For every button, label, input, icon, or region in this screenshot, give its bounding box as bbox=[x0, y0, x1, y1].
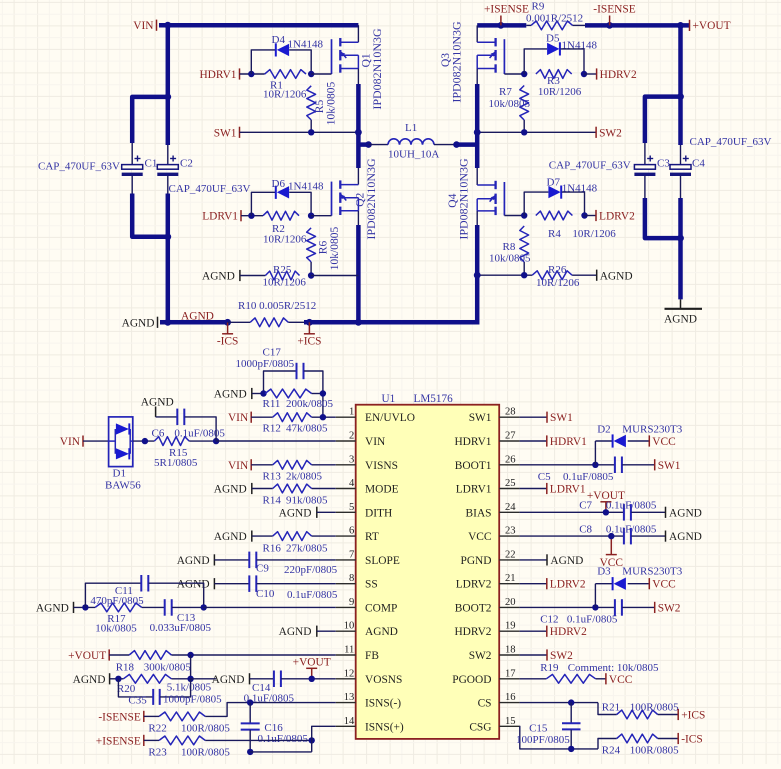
svg-text:BAW56: BAW56 bbox=[105, 480, 141, 492]
node BIAS/+VOUT bbox=[603, 509, 609, 515]
net label -ICS bbox=[227, 322, 229, 334]
svg-text:C10: C10 bbox=[256, 588, 275, 600]
svg-text:R11: R11 bbox=[263, 398, 281, 410]
svg-text:R6: R6 bbox=[318, 241, 330, 255]
wire node to HDRV2 bbox=[584, 73, 597, 75]
svg-text:AGND: AGND bbox=[669, 507, 702, 519]
node gate/R3/D5 bbox=[521, 71, 527, 77]
svg-text:SW2: SW2 bbox=[469, 650, 492, 662]
svg-text:U1: U1 bbox=[382, 393, 396, 405]
svg-text:R14: R14 bbox=[263, 495, 282, 507]
node VCC tap bbox=[608, 533, 614, 539]
node D1/R15/C6... left bbox=[142, 438, 148, 444]
wire LDRV1 to R2 bbox=[241, 215, 263, 217]
wire CSG corner bbox=[520, 726, 598, 749]
node R2/R6/gate bbox=[308, 213, 314, 219]
wire R10 right lead bbox=[288, 321, 304, 323]
svg-text:R18: R18 bbox=[116, 662, 135, 674]
resistor R6 bbox=[307, 228, 316, 262]
resistor R9 bbox=[531, 21, 573, 30]
node -ICS tap bbox=[224, 319, 231, 326]
svg-text:17: 17 bbox=[505, 668, 516, 679]
svg-text:LDRV2: LDRV2 bbox=[550, 579, 586, 591]
wire HDRV1 to R1 bbox=[240, 73, 265, 75]
capacitor C10 bbox=[214, 583, 249, 585]
svg-text:R8: R8 bbox=[503, 241, 516, 253]
wire SW2 bbox=[477, 131, 596, 133]
svg-text:100R/0805: 100R/0805 bbox=[630, 702, 679, 714]
svg-text:Comment: 10k/0805: Comment: 10k/0805 bbox=[568, 662, 659, 674]
wire R18 to pin11 bbox=[171, 654, 335, 656]
resistor R18 bbox=[129, 651, 171, 660]
svg-text:+VOUT: +VOUT bbox=[293, 656, 331, 668]
wire L1 left stub bbox=[358, 142, 368, 147]
svg-text:PGOOD: PGOOD bbox=[452, 674, 491, 686]
net label +VOUT at BIAS bbox=[605, 502, 607, 513]
svg-text:5: 5 bbox=[349, 502, 354, 513]
svg-text:-ISENSE: -ISENSE bbox=[593, 4, 635, 16]
net label VCC at R19 bbox=[596, 678, 606, 680]
wire VIN rail bbox=[159, 23, 358, 28]
net label HDRV2 bbox=[596, 68, 598, 79]
svg-text:R26: R26 bbox=[548, 264, 567, 276]
svg-text:D4: D4 bbox=[272, 34, 286, 46]
svg-text:25: 25 bbox=[505, 478, 516, 489]
diode D5 bbox=[547, 43, 559, 55]
svg-text:IPD082N10N3G: IPD082N10N3G bbox=[449, 21, 463, 103]
op-amp U1 body bbox=[356, 405, 500, 739]
svg-text:27k/0805: 27k/0805 bbox=[286, 543, 328, 555]
node LDRV1/D6 bbox=[248, 213, 254, 219]
svg-text:VCC: VCC bbox=[652, 579, 675, 591]
svg-text:11: 11 bbox=[344, 645, 354, 656]
wire BOOT2 up to D3 bbox=[594, 584, 596, 608]
svg-text:D2: D2 bbox=[597, 424, 610, 436]
node C3-C4 gnd join bbox=[677, 235, 684, 242]
svg-text:5.1k/0805: 5.1k/0805 bbox=[167, 682, 212, 694]
svg-text:5R1/0805: 5R1/0805 bbox=[154, 457, 198, 469]
svg-text:C35: C35 bbox=[128, 695, 147, 707]
wire C1 bottom lead bbox=[131, 176, 133, 194]
svg-text:27: 27 bbox=[505, 431, 516, 442]
svg-text:AGND: AGND bbox=[664, 314, 697, 326]
wire VIN to D1 bbox=[83, 440, 109, 442]
wire D6 left leg bbox=[251, 192, 275, 215]
svg-text:AGND: AGND bbox=[669, 531, 702, 543]
capacitor C4 bbox=[670, 165, 691, 170]
svg-text:10R/1206: 10R/1206 bbox=[536, 277, 580, 289]
svg-text:100R/0805: 100R/0805 bbox=[181, 723, 230, 735]
svg-text:SLOPE: SLOPE bbox=[365, 555, 400, 567]
node CS/C15 bbox=[568, 699, 574, 705]
svg-text:HDRV1: HDRV1 bbox=[454, 436, 491, 448]
wire R6 bottom lead bbox=[310, 262, 312, 276]
op-amp U1 pins 1-28 bbox=[336, 416, 356, 418]
svg-text:10k/0805: 10k/0805 bbox=[326, 82, 338, 126]
resistor R7 bbox=[520, 86, 529, 121]
svg-text:0.1uF/0805: 0.1uF/0805 bbox=[174, 428, 225, 440]
resistor R12 bbox=[273, 413, 312, 422]
svg-text:FB: FB bbox=[365, 650, 379, 662]
svg-text:DITH: DITH bbox=[365, 507, 392, 519]
node +ICS tap bbox=[306, 319, 313, 326]
transistor Q1 bbox=[331, 39, 333, 74]
svg-text:C9: C9 bbox=[256, 563, 269, 575]
svg-text:D7: D7 bbox=[547, 177, 561, 189]
wire D5 left leg bbox=[524, 49, 547, 74]
wire D7 left leg bbox=[524, 192, 548, 215]
wire input gnd bus bbox=[166, 194, 171, 323]
resistor R4 bbox=[536, 211, 573, 220]
svg-text:2: 2 bbox=[349, 431, 354, 442]
capacitor C35 bbox=[118, 679, 152, 697]
capacitor C6 bbox=[156, 416, 177, 418]
svg-text:L1: L1 bbox=[405, 122, 417, 134]
wire -ISENSE to R22 bbox=[144, 715, 159, 717]
wire FB down bbox=[190, 655, 192, 679]
capacitor C5 bbox=[614, 457, 616, 474]
wire Q2 drain lead bbox=[357, 168, 359, 185]
svg-text:AGND: AGND bbox=[550, 555, 583, 567]
svg-text:1N4148: 1N4148 bbox=[288, 39, 324, 51]
wire C16 bottom to corner bbox=[250, 751, 312, 753]
svg-text:HDRV2: HDRV2 bbox=[454, 626, 491, 638]
diode D4 bbox=[275, 43, 277, 56]
svg-text:CAP_470UF_63V: CAP_470UF_63V bbox=[169, 183, 251, 195]
wire AGND bus left bbox=[160, 320, 228, 325]
svg-text:1N4148: 1N4148 bbox=[288, 181, 324, 193]
svg-text:C15: C15 bbox=[529, 723, 548, 735]
node +VOUT corner bbox=[677, 22, 684, 29]
svg-text:100R/0805: 100R/0805 bbox=[181, 747, 230, 759]
svg-text:AGND: AGND bbox=[36, 602, 69, 614]
wire R14 to pin4 bbox=[312, 488, 336, 490]
svg-text:12: 12 bbox=[344, 668, 355, 679]
node +VOUT/pin12 bbox=[309, 676, 315, 682]
svg-text:LDRV2: LDRV2 bbox=[599, 211, 635, 223]
wire R15 right bbox=[189, 440, 216, 442]
wire VCC row bbox=[520, 535, 624, 537]
svg-text:CAP_470UF_63V: CAP_470UF_63V bbox=[38, 161, 120, 173]
net label SW2 at C12 bbox=[654, 602, 656, 613]
svg-text:ISNS(+): ISNS(+) bbox=[365, 721, 404, 733]
svg-text:C8: C8 bbox=[579, 524, 592, 536]
wire comp to pin9 bbox=[204, 606, 336, 608]
svg-text:VISNS: VISNS bbox=[365, 460, 398, 472]
wire SW2 bus thick bbox=[475, 84, 480, 168]
svg-text:+ISENSE: +ISENSE bbox=[96, 735, 141, 747]
wire Q2 src thick to AGND bbox=[356, 225, 361, 322]
net label SW1 at C5 bbox=[654, 459, 656, 470]
svg-text:6: 6 bbox=[349, 526, 354, 537]
wire C1 top lead bbox=[131, 143, 133, 165]
svg-text:D1: D1 bbox=[113, 468, 126, 480]
resistor R11 bbox=[265, 389, 312, 398]
capacitor C13 bbox=[164, 599, 166, 616]
wire R25 left lead bbox=[240, 275, 266, 277]
capacitor C14 bbox=[250, 678, 274, 680]
svg-text:R13: R13 bbox=[263, 471, 282, 483]
svg-text:AGND: AGND bbox=[279, 507, 312, 519]
wire R10 left lead bbox=[228, 321, 251, 323]
diode D6 bbox=[275, 186, 277, 199]
wire node to Q2 gate bbox=[311, 215, 331, 217]
power port AGND at C8 bbox=[665, 531, 667, 542]
svg-text:D6: D6 bbox=[272, 178, 286, 190]
svg-text:22: 22 bbox=[505, 549, 516, 560]
wire AGND bus right bbox=[304, 320, 477, 325]
wire output bus down to C4 bbox=[678, 25, 683, 145]
svg-text:C2: C2 bbox=[180, 158, 193, 170]
wire AGND to R11 bbox=[252, 393, 265, 395]
svg-text:1: 1 bbox=[349, 407, 354, 418]
wire AGND to R20 bbox=[110, 678, 124, 680]
svg-text:HDRV1: HDRV1 bbox=[550, 436, 587, 448]
wire Q2 src thin bbox=[357, 211, 359, 225]
wire CS row bbox=[520, 702, 598, 704]
wire VIN to R13 bbox=[251, 464, 273, 466]
svg-text:91k/0805: 91k/0805 bbox=[286, 495, 328, 507]
svg-text:28: 28 bbox=[505, 407, 516, 418]
wire C2 top lead bbox=[167, 145, 169, 165]
svg-text:16: 16 bbox=[505, 692, 516, 703]
svg-text:LDRV1: LDRV1 bbox=[550, 484, 586, 496]
wire AGND to pin10 bbox=[317, 630, 336, 632]
node -ISENSE tap bbox=[606, 22, 613, 29]
svg-text:0.1uF/0805: 0.1uF/0805 bbox=[258, 733, 309, 745]
wire node to AGND2 pin12 bbox=[191, 678, 217, 680]
svg-text:10R/1206: 10R/1206 bbox=[263, 234, 307, 246]
svg-text:R4: R4 bbox=[548, 228, 561, 240]
svg-text:19: 19 bbox=[505, 621, 516, 632]
power port AGND at PGND bbox=[520, 559, 547, 561]
svg-text:VCC: VCC bbox=[468, 531, 491, 543]
node R25/R6 bbox=[308, 272, 314, 278]
svg-text:CAP_470UF_63V: CAP_470UF_63V bbox=[690, 136, 772, 148]
node CSG/C15 bbox=[568, 746, 574, 752]
svg-text:HDRV1: HDRV1 bbox=[199, 69, 236, 81]
svg-text:1000pF/0805: 1000pF/0805 bbox=[163, 694, 222, 706]
svg-text:MODE: MODE bbox=[365, 484, 399, 496]
svg-text:R25: R25 bbox=[273, 264, 292, 276]
wire input top corner to C1 bbox=[132, 97, 168, 143]
svg-text:+VOUT: +VOUT bbox=[693, 20, 731, 32]
svg-text:AGND: AGND bbox=[214, 389, 247, 401]
wire Q3 drain lead bbox=[476, 25, 478, 42]
svg-text:SW2: SW2 bbox=[658, 602, 681, 614]
wire C13 to node bbox=[172, 606, 204, 608]
svg-text:LDRV1: LDRV1 bbox=[202, 211, 238, 223]
svg-text:AGND: AGND bbox=[279, 626, 312, 638]
svg-text:C12: C12 bbox=[540, 614, 558, 626]
node CS filter top bbox=[247, 699, 253, 705]
node FB divider bbox=[187, 652, 193, 658]
svg-text:-ICS: -ICS bbox=[217, 335, 239, 347]
wire R26 row from bus bbox=[477, 274, 532, 276]
node C1-C2 gnd join bbox=[164, 233, 171, 240]
svg-text:R10 0.005R/2512: R10 0.005R/2512 bbox=[238, 300, 316, 312]
power port AGND at C7 bbox=[665, 507, 667, 518]
svg-text:R7: R7 bbox=[499, 86, 512, 98]
svg-text:C7: C7 bbox=[579, 500, 592, 512]
resistor R22 bbox=[159, 712, 205, 721]
svg-text:IPD082N10N3G: IPD082N10N3G bbox=[370, 28, 384, 110]
node R4/D7 right bbox=[581, 212, 587, 218]
svg-text:RT: RT bbox=[365, 531, 379, 543]
svg-text:R20: R20 bbox=[117, 683, 136, 695]
wire C2 bottom lead bbox=[167, 176, 169, 194]
wire R7 bottom lead bbox=[523, 120, 525, 132]
svg-text:18: 18 bbox=[505, 645, 516, 656]
svg-text:IPD082N10N3G: IPD082N10N3G bbox=[364, 158, 378, 240]
svg-text:IPD082N10N3G: IPD082N10N3G bbox=[456, 158, 470, 240]
svg-text:COMP: COMP bbox=[365, 602, 397, 614]
node output corner bbox=[677, 93, 684, 100]
net label SW1 pin28 bbox=[520, 416, 547, 418]
svg-text:10UH_10A: 10UH_10A bbox=[388, 149, 439, 161]
svg-text:10k/0805: 10k/0805 bbox=[489, 98, 531, 110]
svg-text:2k/0805: 2k/0805 bbox=[286, 471, 323, 483]
wire Q4 gate to node bbox=[504, 215, 524, 217]
svg-text:0.033uF/0805: 0.033uF/0805 bbox=[150, 622, 212, 634]
resistor R14 bbox=[273, 484, 312, 493]
wire BOOT2 bbox=[520, 606, 615, 608]
resistor R5 bbox=[307, 86, 316, 120]
svg-text:200k/0805: 200k/0805 bbox=[286, 398, 334, 410]
svg-text:C5: C5 bbox=[538, 471, 551, 483]
svg-text:R9: R9 bbox=[532, 1, 545, 13]
node R20/C35 left bbox=[115, 676, 121, 682]
wire AGND to pin5 bbox=[317, 511, 336, 513]
node SW1/R5 bbox=[308, 129, 314, 135]
svg-text:300k/0805: 300k/0805 bbox=[144, 662, 192, 674]
wire C3 bottom lead bbox=[644, 176, 646, 198]
wire Q3 src thin bbox=[476, 69, 478, 85]
svg-text:0.1uF/0805: 0.1uF/0805 bbox=[563, 471, 614, 483]
wire output gnd bus bbox=[678, 198, 683, 299]
svg-text:C17: C17 bbox=[263, 347, 282, 359]
resistor R20 bbox=[123, 674, 171, 683]
svg-text:CAP_470UF_63V: CAP_470UF_63V bbox=[549, 160, 631, 172]
resistor R13 bbox=[273, 460, 312, 469]
wire input bus down to C2 bbox=[166, 25, 171, 145]
svg-text:LDRV1: LDRV1 bbox=[456, 484, 492, 496]
svg-text:10k/0805: 10k/0805 bbox=[329, 227, 341, 271]
net label +ISENSE bbox=[500, 16, 502, 26]
wire output top corner to C3 bbox=[645, 97, 681, 143]
wire BOOT1 bbox=[520, 464, 615, 466]
wire D4 left leg bbox=[251, 50, 275, 74]
capacitor C7 bbox=[623, 504, 625, 520]
wire Q1 drain lead bbox=[357, 25, 359, 42]
net label +ICS right bbox=[658, 714, 679, 716]
wire AGND to comp node bbox=[74, 606, 96, 608]
wire AGND to R16 bbox=[252, 535, 273, 537]
svg-text:10R/1206: 10R/1206 bbox=[572, 228, 616, 240]
power port AGND output bbox=[680, 299, 682, 308]
svg-text:MURS230T3: MURS230T3 bbox=[622, 424, 682, 436]
svg-text:BIAS: BIAS bbox=[466, 507, 492, 519]
svg-text:VIN: VIN bbox=[365, 436, 385, 448]
wire R9 right lead bbox=[573, 24, 585, 26]
svg-text:AGND: AGND bbox=[214, 484, 247, 496]
resistor R24 bbox=[617, 734, 658, 743]
node L1 right bbox=[453, 141, 460, 148]
svg-text:10R/1206: 10R/1206 bbox=[263, 89, 307, 101]
power port AGND at R26 bbox=[596, 270, 598, 281]
wire BOOT1 up to D2 bbox=[594, 441, 596, 465]
svg-text:ISNS(-): ISNS(-) bbox=[365, 698, 401, 710]
resistor R8 bbox=[520, 226, 529, 262]
svg-text:47k/0805: 47k/0805 bbox=[286, 423, 328, 435]
net label +VOUT bbox=[689, 20, 691, 31]
svg-text:AGND: AGND bbox=[141, 397, 174, 409]
svg-text:AGND: AGND bbox=[181, 311, 214, 323]
svg-text:SW2: SW2 bbox=[550, 650, 573, 662]
svg-text:HDRV2: HDRV2 bbox=[550, 626, 587, 638]
resistor R1 bbox=[265, 70, 306, 79]
net label -ISENSE bbox=[609, 16, 611, 26]
svg-text:CSG: CSG bbox=[469, 721, 491, 733]
net label HDRV2 pin19 bbox=[520, 630, 547, 632]
svg-text:R5: R5 bbox=[314, 100, 326, 114]
node AGND bus / Q2 leg bbox=[355, 319, 362, 326]
svg-text:26: 26 bbox=[505, 454, 516, 465]
svg-text:100PF/0805: 100PF/0805 bbox=[516, 734, 570, 746]
net label LDRV2 pin21 bbox=[520, 583, 547, 585]
svg-text:LM5176: LM5176 bbox=[414, 393, 454, 405]
net label LDRV1 pin25 bbox=[520, 488, 547, 490]
svg-text:15: 15 bbox=[505, 716, 516, 727]
svg-text:8: 8 bbox=[349, 573, 354, 584]
wire L1 right stub bbox=[457, 142, 478, 147]
wire D1 to R15 bbox=[133, 440, 155, 442]
svg-text:3: 3 bbox=[349, 454, 354, 465]
wire node to Q1 gate bbox=[311, 73, 331, 75]
capacitor C8 bbox=[623, 528, 625, 545]
svg-text:24: 24 bbox=[505, 502, 516, 513]
wire D6 right leg bbox=[289, 192, 311, 215]
resistor R15 bbox=[154, 437, 189, 446]
inductor L1 bbox=[388, 139, 400, 145]
svg-text:VIN: VIN bbox=[228, 460, 248, 472]
resistor R10 bbox=[250, 318, 288, 327]
svg-text:7: 7 bbox=[349, 549, 354, 560]
wire R16 to pin6 bbox=[312, 535, 336, 537]
svg-text:C4: C4 bbox=[692, 158, 705, 170]
svg-text:+ICS: +ICS bbox=[681, 710, 705, 722]
diode D1 bbox=[109, 417, 133, 467]
svg-text:100R/0805: 100R/0805 bbox=[630, 745, 679, 757]
svg-text:C1: C1 bbox=[145, 158, 158, 170]
node R8/R26 bbox=[521, 272, 527, 278]
svg-text:AGND: AGND bbox=[177, 555, 210, 567]
svg-text:R24: R24 bbox=[602, 745, 621, 757]
svg-text:PGND: PGND bbox=[460, 555, 491, 567]
wire VIN to R12 bbox=[251, 416, 273, 418]
wire R13 to pin3 bbox=[312, 464, 336, 466]
node BOOT1 bbox=[592, 462, 598, 468]
svg-text:0.001R/2512: 0.001R/2512 bbox=[526, 13, 583, 25]
node input corner bbox=[164, 94, 171, 101]
svg-text:SW1: SW1 bbox=[658, 460, 681, 472]
wire node to pin2 bbox=[216, 440, 336, 442]
svg-text:9: 9 bbox=[349, 597, 354, 608]
capacitor C15 bbox=[570, 703, 572, 723]
wire R23 to corner bbox=[205, 739, 312, 741]
net label +VOUT above pin12 bbox=[311, 668, 313, 679]
svg-text:+VOUT: +VOUT bbox=[68, 650, 106, 662]
